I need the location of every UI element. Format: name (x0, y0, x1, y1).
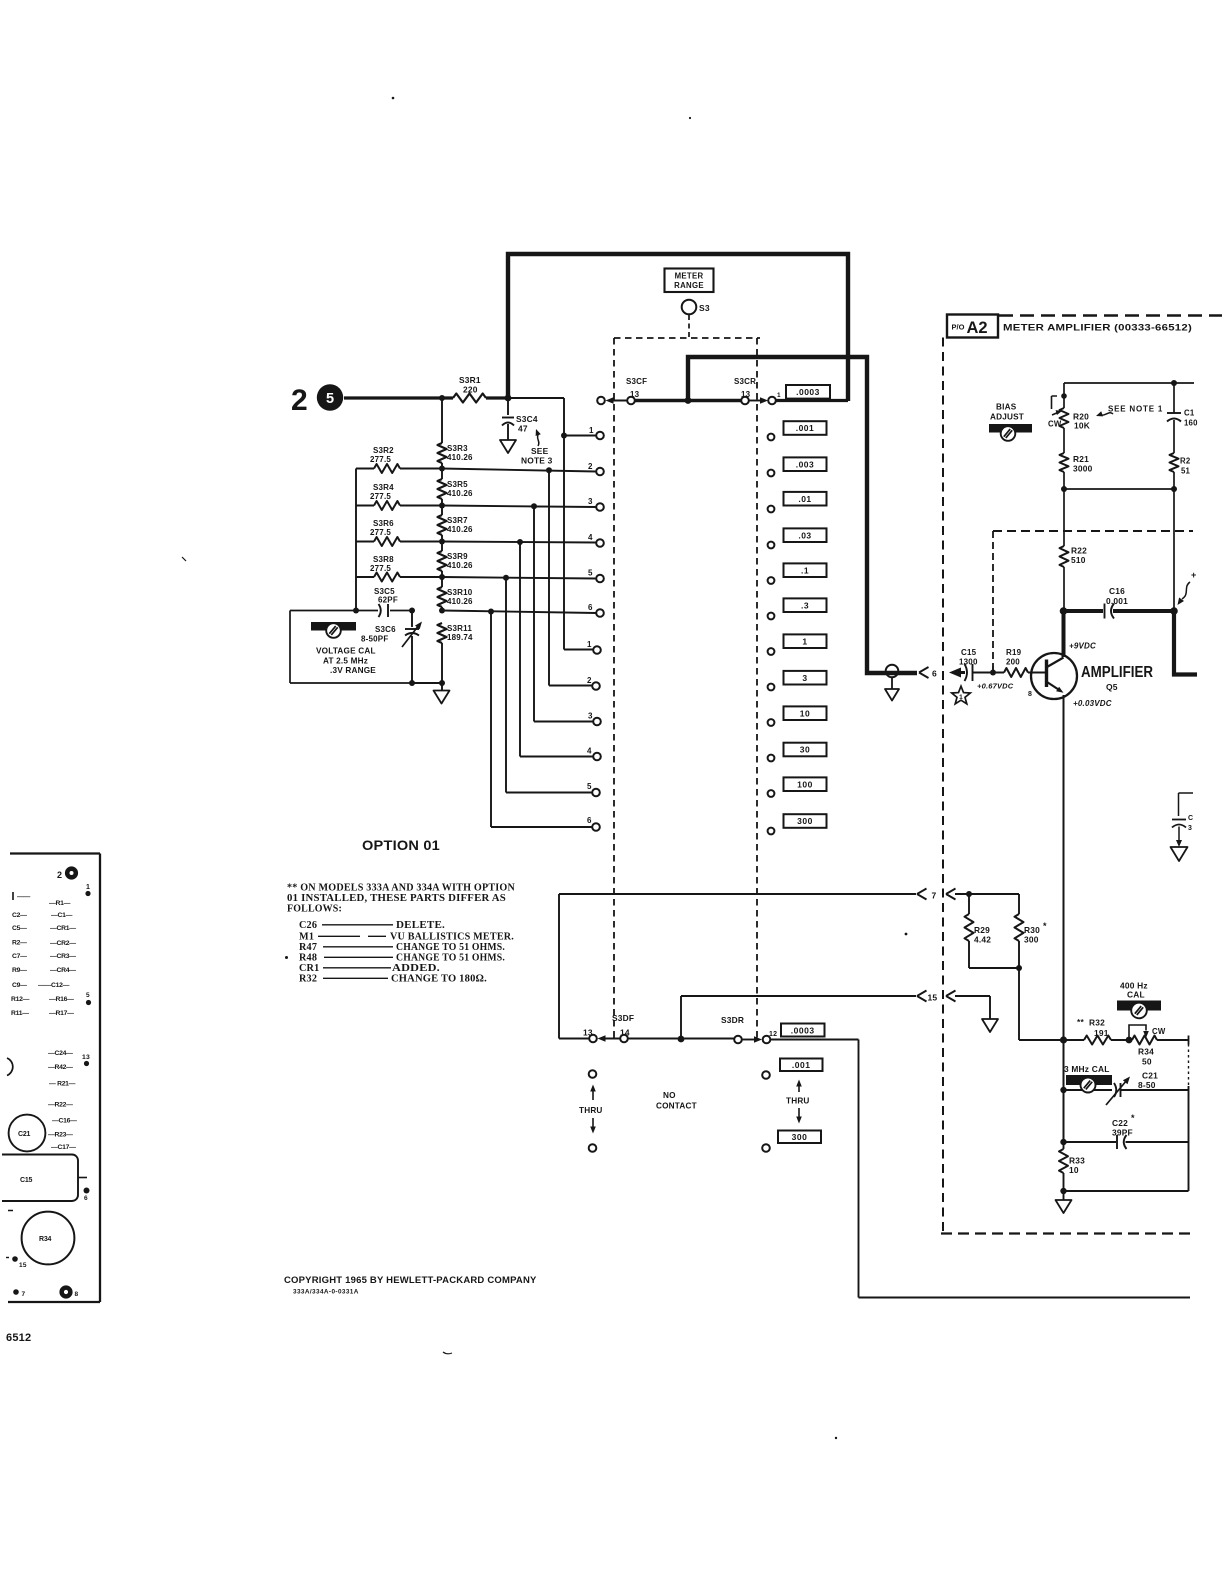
voltage-cal adjustment box (290, 611, 412, 684)
svg-text:S3R7: S3R7 (447, 516, 468, 525)
svg-text:C9—: C9— (12, 982, 27, 989)
board pin 6 (84, 1188, 90, 1194)
svg-text:30: 30 (800, 745, 810, 755)
svg-text:C21: C21 (1142, 1071, 1158, 1081)
svg-text:300: 300 (792, 1132, 808, 1142)
svg-text:VU BALLISTICS METER.: VU BALLISTICS METER. (390, 932, 514, 943)
contact (rear wafer) (768, 648, 775, 655)
wire: R21/R23 bottom row (1064, 488, 1174, 490)
svg-text:1: 1 (589, 426, 594, 435)
svg-text:CW: CW (1048, 420, 1062, 429)
svg-text:——: —— (17, 894, 30, 901)
resistor S3R6 (356, 541, 374, 543)
svg-text:3: 3 (1188, 825, 1192, 832)
svg-text:R22: R22 (1071, 546, 1087, 556)
svg-text:220: 220 (463, 385, 478, 395)
resistor R30 (1018, 894, 1020, 914)
inner shield boundary (dashed) (993, 530, 1193, 532)
svg-text:1: 1 (777, 392, 781, 399)
svg-text:410.26: 410.26 (447, 597, 473, 606)
range label box .3 (784, 598, 827, 612)
svg-text:277.5: 277.5 (370, 492, 391, 501)
contact (rear wafer) (768, 828, 775, 835)
ground below R33 (1063, 1191, 1065, 1200)
svg-text:410.26: 410.26 (447, 525, 473, 534)
contact (rear wafer) (768, 577, 775, 584)
wire: bottom tie row (1064, 1190, 1189, 1192)
svg-text:C2—: C2— (12, 912, 27, 919)
contact (rear wafer) (768, 790, 775, 797)
contact (rear wafer) (768, 684, 775, 691)
svg-text:1: 1 (587, 640, 592, 649)
svg-text:BIAS: BIAS (996, 403, 1017, 412)
svg-text:3 MHz CAL: 3 MHz CAL (1064, 1064, 1110, 1074)
resistor S3R2 (356, 468, 374, 470)
svg-text:C1: C1 (1184, 409, 1195, 418)
svg-text:Q5: Q5 (1106, 682, 1118, 692)
svg-text:3: 3 (588, 712, 593, 721)
svg-text:THRU: THRU (786, 1097, 810, 1106)
svg-text:1: 1 (959, 694, 963, 701)
svg-text:SEE NOTE 1: SEE NOTE 1 (1108, 405, 1163, 414)
resistor S3R5 (438, 479, 447, 499)
svg-text:NOTE 3: NOTE 3 (521, 456, 553, 466)
note arrow: SEE NOTE 3 (538, 433, 539, 446)
wire: emitter down to R32 row (1063, 695, 1065, 1040)
wire: S3DR out, down and across (770, 1040, 1190, 1298)
wire: node to contact-1 riser (508, 397, 564, 399)
svg-text:6512: 6512 (6, 1332, 31, 1344)
resistor R22 (1060, 546, 1069, 567)
svg-text:2: 2 (588, 462, 593, 471)
variable capacitor S3C6 (411, 611, 413, 684)
resistor S3R4 (356, 505, 374, 507)
svg-text:—CR4—: —CR4— (50, 967, 76, 974)
svg-text:—CR2—: —CR2— (50, 940, 76, 947)
screwdriver adjust symbol (voltage cal) (311, 622, 356, 631)
junction dots on chain (439, 466, 445, 472)
connector arrow 6 (919, 667, 929, 678)
capacitor S3C4 (507, 400, 509, 415)
svg-text:S3CF: S3CF (626, 377, 647, 386)
svg-text:.001: .001 (792, 1060, 811, 1070)
wire: riser from wiper bus to pin 15 row (680, 996, 682, 1039)
svg-text:R32: R32 (299, 974, 317, 985)
svg-text:R11—: R11— (11, 1010, 29, 1017)
svg-text:.3: .3 (801, 600, 809, 610)
svg-text:S3C6: S3C6 (375, 625, 396, 634)
svg-text:+0.03VDC: +0.03VDC (1073, 699, 1112, 708)
svg-text:.0003: .0003 (791, 1026, 815, 1036)
svg-text:AT 2.5 MHz: AT 2.5 MHz (323, 657, 368, 666)
wire: R29/R30 bottom tie, down to emitter row (969, 967, 1019, 969)
svg-text:8: 8 (1028, 691, 1032, 698)
svg-text:C7—: C7— (12, 953, 27, 960)
svg-text:M1: M1 (299, 932, 314, 943)
svg-text:13: 13 (82, 1054, 90, 1061)
svg-text:277.5: 277.5 (370, 564, 391, 573)
svg-text:OPTION 01: OPTION 01 (362, 838, 440, 853)
board pad 8 (59, 1285, 72, 1298)
wire: thick input wire from node 5 to S3R1 (344, 396, 453, 399)
resistor R19 (1004, 668, 1028, 677)
contact S3R 5 (lower) (592, 789, 600, 797)
wire: thick signal loop from S3R1 node up over to S3CR contact 1 (508, 254, 848, 401)
contact (rear wafer) (768, 434, 775, 441)
svg-text:CAL: CAL (1127, 990, 1145, 1000)
wafer boundary (dashed) (613, 338, 615, 1040)
svg-text:3: 3 (802, 673, 807, 683)
svg-text:CR1: CR1 (299, 963, 319, 974)
svg-text:COPYRIGHT 1965 BY HEWLETT-PACK: COPYRIGHT 1965 BY HEWLETT-PACKARD COMPAN… (284, 1275, 537, 1286)
svg-text:CONTACT: CONTACT (656, 1102, 697, 1111)
contact S3R 3 (lower) (593, 718, 601, 726)
svg-text:10K: 10K (1074, 421, 1090, 431)
svg-text:SEE: SEE (531, 446, 549, 456)
switch S3 shaft circle (682, 300, 697, 315)
range label box .001 (lower) (780, 1059, 823, 1072)
svg-text:6: 6 (84, 1195, 88, 1202)
range label box 300 (784, 814, 827, 828)
range label box 1 (784, 634, 827, 648)
contact S3R 4 (lower) (593, 753, 601, 761)
svg-text:1: 1 (86, 884, 90, 891)
svg-text:5: 5 (326, 391, 334, 407)
svg-text:+: + (1191, 570, 1196, 580)
svg-text:C5—: C5— (12, 925, 27, 932)
svg-text:C15: C15 (20, 1177, 33, 1184)
svg-text:CHANGE TO 51 OHMS.: CHANGE TO 51 OHMS. (396, 942, 505, 953)
contact (rear wafer) (768, 542, 775, 549)
svg-text:CHANGE TO 180Ω.: CHANGE TO 180Ω. (391, 974, 487, 985)
svg-text:277.5: 277.5 (370, 455, 391, 464)
svg-text:R29: R29 (974, 925, 990, 935)
svg-text:+9VDC: +9VDC (1069, 642, 1096, 651)
svg-text:VOLTAGE CAL: VOLTAGE CAL (316, 647, 376, 656)
wire: right bus of cal network (1188, 1044, 1190, 1086)
svg-text:S3R10: S3R10 (447, 588, 473, 597)
svg-text:5: 5 (588, 569, 593, 578)
board capacitor C15 box (2, 1155, 78, 1202)
svg-text:R2—: R2— (12, 940, 27, 947)
svg-text:R47: R47 (299, 942, 317, 953)
variable capacitor C21 (3MHz cal) (1063, 1040, 1065, 1142)
stray marks (392, 97, 395, 100)
wire: node5 row to contacts 6 (442, 611, 596, 828)
svg-text:200: 200 (1006, 658, 1020, 667)
svg-text:15: 15 (19, 1262, 27, 1269)
svg-text:01 INSTALLED, THESE PARTS DIFF: 01 INSTALLED, THESE PARTS DIFFER AS (287, 893, 506, 904)
svg-text:5: 5 (86, 992, 90, 999)
svg-text:50: 50 (1142, 1057, 1152, 1067)
svg-text:R12—: R12— (11, 996, 30, 1003)
contact S3R 1 (lower) (593, 646, 601, 654)
svg-text:RANGE: RANGE (674, 281, 704, 290)
contact (rear wafer) (768, 506, 775, 513)
svg-text:7: 7 (22, 1291, 26, 1298)
svg-text:C15: C15 (961, 648, 977, 657)
svg-text:S3R9: S3R9 (447, 552, 468, 561)
svg-text:6: 6 (588, 603, 593, 612)
svg-text:R21: R21 (1073, 454, 1089, 464)
svg-text:*: * (1043, 921, 1047, 931)
contact S3F 6 (upper) (596, 609, 604, 617)
svg-text:6: 6 (587, 816, 592, 825)
capacitor C15 with input arrow (949, 668, 961, 678)
svg-text:——C12—: ——C12— (38, 982, 70, 989)
wire: box bottom to ground (412, 682, 442, 684)
svg-text:100: 100 (797, 779, 813, 789)
svg-text:—C16—: —C16— (52, 1118, 77, 1125)
A2 module boundary (dashed) (942, 338, 944, 1234)
svg-text:—C24—: —C24— (48, 1050, 73, 1057)
contact (rear wafer) (768, 719, 775, 726)
resistor S3R10 (438, 587, 447, 607)
svg-text:S3R5: S3R5 (447, 480, 468, 489)
wire: contact 1 to thick riser (776, 399, 848, 402)
svg-text:1: 1 (802, 636, 807, 646)
resistor S3R9 (438, 551, 447, 571)
open contacts below S3DF (589, 1070, 597, 1078)
svg-text:4: 4 (588, 533, 593, 542)
wire: thick wiper output to amplifier input (688, 357, 917, 673)
svg-text:1300: 1300 (959, 658, 978, 667)
range label box 3 (784, 671, 827, 685)
resistor R29 (968, 894, 970, 914)
svg-text:S3R4: S3R4 (373, 483, 394, 492)
svg-text:CW: CW (1152, 1027, 1166, 1036)
resistor S3R3 (438, 443, 447, 463)
contact S3F 2 (upper) (596, 468, 604, 476)
resistor S3R1 (453, 394, 486, 403)
svg-text:160: 160 (1184, 419, 1198, 428)
svg-text:62PF: 62PF (378, 596, 398, 605)
svg-text:R33: R33 (1069, 1156, 1085, 1166)
svg-text:191: 191 (1094, 1028, 1109, 1038)
svg-text:THRU: THRU (579, 1106, 603, 1115)
svg-text:—R23—: —R23— (48, 1132, 73, 1139)
svg-text:S3C4: S3C4 (516, 414, 538, 424)
wire: thick wiper bus S3CF-S3CR (635, 399, 741, 402)
svg-text:C21: C21 (18, 1131, 31, 1138)
resistor R32 (1084, 1036, 1111, 1045)
svg-text:**: ** (1077, 1017, 1084, 1027)
wire: node3 row to contacts 4 (442, 542, 596, 757)
svg-text:R2: R2 (1180, 457, 1191, 466)
contact S3F 3 (upper) (596, 503, 604, 511)
svg-text:277.5: 277.5 (370, 528, 391, 537)
svg-text:.01: .01 (798, 494, 811, 504)
capacitor (cut at edge) to ground top right (1179, 793, 1194, 816)
range label box .01 (784, 492, 827, 506)
junction S3R1 left node (439, 395, 445, 401)
wire: chain vertical segments (441, 398, 443, 691)
wire: node2 row to contacts 3 (442, 506, 596, 722)
wire: riser to front contact 1 and rear contact 1 (564, 398, 596, 650)
svg-text:S3R3: S3R3 (447, 444, 468, 453)
svg-text:R9—: R9— (12, 967, 27, 974)
svg-text:8-50PF: 8-50PF (361, 635, 388, 644)
contact S3F 5 (upper) (596, 575, 604, 583)
wire: thick drop to output (1174, 611, 1197, 675)
range label box 30 (784, 743, 827, 757)
svg-text:0.001: 0.001 (1106, 596, 1128, 606)
board pad 2 (65, 866, 78, 879)
cut component circle at edge (7, 1058, 13, 1076)
wire: node1 row to contacts 2 (442, 469, 596, 686)
svg-text:4: 4 (587, 747, 592, 756)
svg-text:A2: A2 (967, 319, 988, 337)
range label box .0003 (786, 385, 830, 399)
svg-text:S3R1: S3R1 (459, 375, 481, 385)
board outline (cut at left page edge) (8, 854, 100, 1303)
resistor R23 (1170, 453, 1179, 472)
svg-text:12: 12 (769, 1031, 777, 1038)
wire: node4 row to contacts 5 (442, 577, 596, 793)
svg-text:300: 300 (797, 816, 813, 826)
svg-text:R48: R48 (299, 953, 317, 964)
svg-text:S3R2: S3R2 (373, 446, 394, 455)
svg-text:6: 6 (932, 669, 937, 679)
transistor Q5 (1031, 653, 1077, 699)
ground at pin 15 (982, 1019, 998, 1032)
svg-text:410.26: 410.26 (447, 561, 473, 570)
svg-text:R34: R34 (1138, 1047, 1154, 1057)
svg-text:410.26: 410.26 (447, 453, 473, 462)
svg-text:300: 300 (1024, 935, 1039, 945)
svg-text:S3R8: S3R8 (373, 555, 394, 564)
wire: left drop to S3DF row (559, 894, 589, 1039)
svg-text:S3DR: S3DR (721, 1015, 744, 1025)
svg-text:FOLLOWS:: FOLLOWS: (287, 904, 342, 915)
svg-text:15: 15 (928, 993, 938, 1003)
junction S3R1 right node (505, 395, 512, 402)
range label box 100 (784, 777, 827, 791)
svg-text:METER: METER (675, 272, 704, 281)
range label box .1 (784, 563, 827, 577)
ground below S3C4 (500, 440, 516, 453)
svg-text:.003: .003 (796, 459, 815, 469)
svg-text:ADJUST: ADJUST (990, 413, 1024, 422)
svg-text:R34: R34 (39, 1236, 52, 1243)
board pin 15 (12, 1256, 18, 1262)
connector arrow 7 into A2 (559, 893, 916, 895)
svg-text:AMPLIFIER: AMPLIFIER (1081, 664, 1153, 681)
wire: collector up to C16 node (1062, 611, 1066, 657)
svg-text:7: 7 (932, 891, 937, 901)
star note symbol 1 (952, 686, 971, 704)
svg-text:8-50: 8-50 (1138, 1080, 1156, 1090)
range label box .003 (784, 457, 827, 471)
wire: S3R1 right to junction (486, 396, 508, 399)
left bus of divider (355, 469, 357, 611)
svg-text:2: 2 (291, 384, 308, 417)
svg-text:.03: .03 (798, 530, 811, 540)
contact (rear wafer) (768, 755, 775, 762)
svg-text:METER AMPLIFIER (00333-66512): METER AMPLIFIER (00333-66512) (1003, 323, 1192, 333)
contact S3R 2 (lower) (592, 682, 600, 690)
svg-text:—CR3—: —CR3— (50, 953, 76, 960)
svg-text:.001: .001 (796, 423, 815, 433)
svg-text:—R1—: —R1— (49, 900, 71, 907)
board silkscreen row (12, 892, 14, 900)
svg-text:333A/334A-0-0331A: 333A/334A-0-0331A (293, 1289, 359, 1296)
svg-text:—CR1—: —CR1— (50, 925, 76, 932)
resistor R21 (1063, 428, 1065, 453)
label box METER RANGE (665, 269, 714, 293)
range label box .001 (784, 421, 827, 435)
capacitor C17 (1173, 383, 1175, 413)
svg-text:410.26: 410.26 (447, 489, 473, 498)
svg-text:R30: R30 (1024, 925, 1040, 935)
svg-text:S3R6: S3R6 (373, 519, 394, 528)
svg-text:R19: R19 (1006, 648, 1022, 657)
svg-text:*: * (1131, 1113, 1135, 1123)
svg-text:3: 3 (588, 497, 593, 506)
svg-text:10: 10 (800, 708, 810, 718)
board capacitor C21 circle (9, 1115, 46, 1152)
svg-text:2: 2 (57, 870, 62, 880)
potentiometer R34 (400Hz cal) (1132, 1036, 1157, 1045)
svg-text:5: 5 (587, 782, 592, 791)
ground at resistor chain bottom (434, 691, 450, 704)
shield/jack symbol on input wire (886, 665, 899, 678)
svg-text:—C17—: —C17— (51, 1144, 76, 1151)
svg-text:2: 2 (587, 676, 592, 685)
svg-text:—R17—: —R17— (49, 1010, 74, 1017)
contact (rear wafer) (768, 470, 775, 477)
board pin 7 (13, 1289, 19, 1295)
range label box .0003 (lower) (781, 1024, 825, 1037)
wire: R32 row (1019, 1039, 1084, 1041)
range label box 10 (784, 706, 827, 720)
svg-text:—R22—: —R22— (48, 1102, 73, 1109)
svg-text:ADDED.: ADDED. (392, 963, 440, 974)
connector arrow 15 into A2 (grounded) (681, 995, 916, 997)
contact S3R 6 (lower) (592, 823, 600, 831)
contact S3F 4 (upper) (596, 539, 604, 547)
resistor R33 (1063, 1142, 1065, 1149)
svg-text:P/O: P/O (952, 323, 965, 332)
svg-text:S3DF: S3DF (612, 1013, 634, 1023)
resistor S3R8 (356, 576, 374, 578)
svg-text:8: 8 (75, 1291, 79, 1298)
svg-text:S3CR: S3CR (734, 377, 756, 386)
svg-text:S3: S3 (699, 303, 710, 313)
dashed link S3 to wafer (688, 315, 690, 338)
svg-text:C22: C22 (1112, 1118, 1128, 1128)
wire: top rail (1064, 382, 1194, 384)
open contacts below S3DR (762, 1071, 770, 1079)
contact S3F 1 (upper) (596, 432, 604, 440)
svg-text:DELETE.: DELETE. (396, 920, 445, 931)
svg-text:.3V RANGE: .3V RANGE (330, 666, 376, 675)
svg-text:51: 51 (1181, 467, 1191, 476)
board potentiometer R34 circle (8, 1210, 13, 1212)
P/O A2 title box (947, 315, 998, 338)
svg-text:CHANGE TO 51 OHMS.: CHANGE TO 51 OHMS. (396, 953, 505, 964)
resistor S3R7 (438, 515, 447, 535)
svg-text:189.74: 189.74 (447, 633, 473, 642)
svg-text:3000: 3000 (1073, 464, 1093, 474)
svg-text:4.42: 4.42 (974, 935, 991, 945)
svg-text:+0.67VDC: +0.67VDC (977, 682, 1014, 691)
svg-text:510: 510 (1071, 555, 1086, 565)
svg-text:S3R11: S3R11 (447, 624, 472, 633)
svg-text:— R21—: — R21— (49, 1081, 76, 1088)
range label box 300 (lower) (778, 1131, 821, 1144)
wire: wiper bus to S3DR (628, 1038, 734, 1040)
